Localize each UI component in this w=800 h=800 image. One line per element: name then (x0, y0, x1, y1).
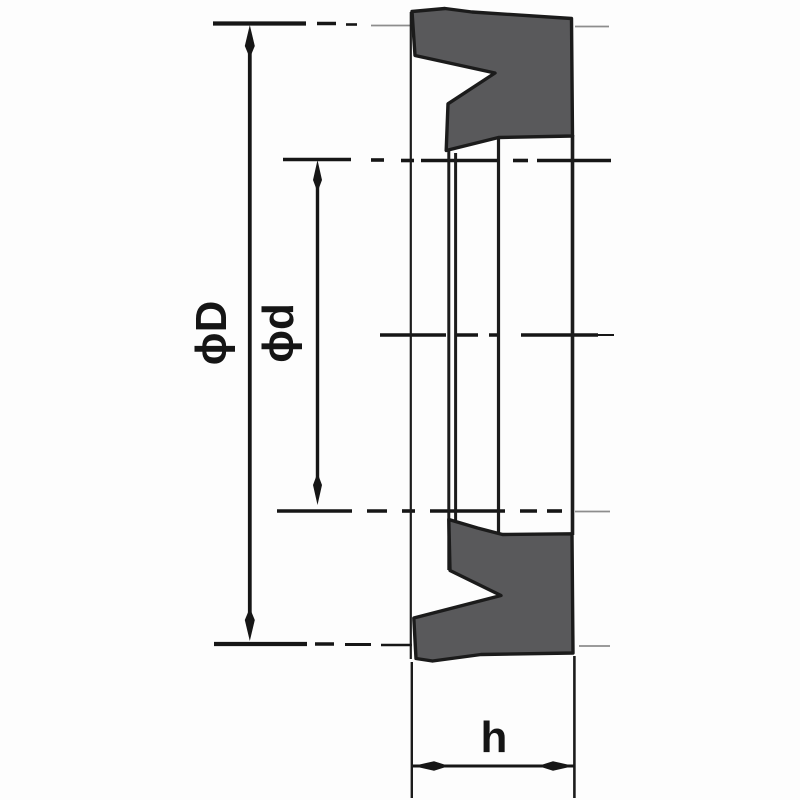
silhouette line inner lip edge A (447, 103, 450, 570)
svg-text:h: h (481, 713, 508, 762)
dimension h extension line right (573, 656, 576, 798)
centerline middle axis (380, 333, 614, 337)
silhouette line heel edge (497, 137, 500, 534)
dimension h extension line left (411, 662, 413, 798)
dimension phi-D line (245, 25, 255, 641)
dimension h label (481, 713, 508, 762)
silhouette line outer-left edge (410, 12, 412, 659)
silhouette line outer-right edge (571, 135, 575, 535)
svg-text:ϕd: ϕd (254, 303, 303, 363)
svg-text:ϕD: ϕD (187, 301, 236, 366)
seal cross-section upper half (412, 9, 573, 151)
dimension phi-d label (254, 303, 303, 363)
centerline top outer (phi-D upper extension) (213, 24, 609, 27)
centerline upper inner (phi-d upper extension) (283, 160, 611, 161)
centerline lower inner (phi-d lower extension) (277, 509, 610, 513)
centerline bottom outer (phi-D lower extension) (214, 644, 610, 646)
seal cross-section lower half (414, 520, 573, 662)
dimension phi-D label (187, 301, 236, 366)
dimension phi-d line (313, 160, 322, 505)
dimension h line (413, 761, 574, 771)
silhouette line inner lip edge B (454, 153, 457, 523)
